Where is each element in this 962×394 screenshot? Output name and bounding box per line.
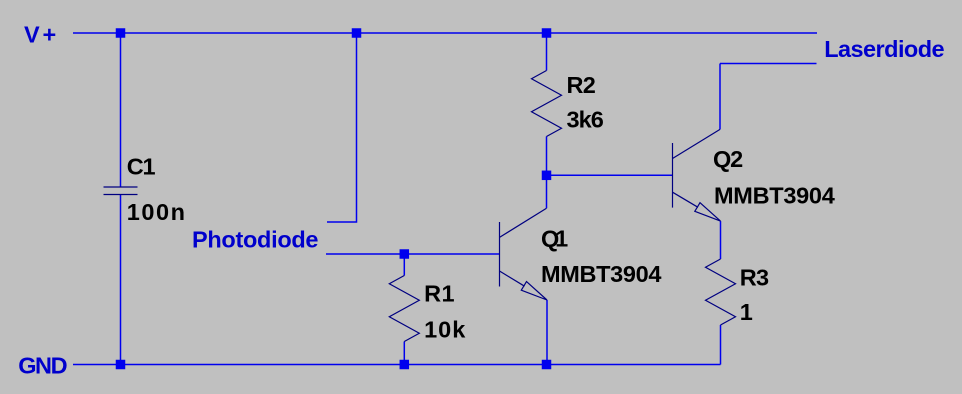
svg-text:GND: GND [18, 353, 67, 379]
wire photodiode anode stub vertical [327, 33, 357, 222]
transistor Q2 [673, 129, 721, 221]
svg-text:1: 1 [740, 299, 753, 325]
wire Q1 collector [546, 175, 548, 208]
junction V+/C1 [116, 28, 126, 38]
wire R3 bottom to GND rail [720, 325, 722, 365]
svg-text:100n: 100n [127, 199, 185, 225]
wire Q1 emitter to GND [546, 300, 548, 365]
svg-text:3k6: 3k6 [567, 107, 604, 133]
junction V+/R2 [542, 28, 552, 38]
wire left vertical V+ to C1 top [120, 33, 122, 187]
svg-text:Laserdiode: Laserdiode [824, 36, 944, 62]
wire Q2 collector up [719, 64, 721, 130]
wire R1 bottom stub [403, 342, 405, 365]
svg-text:R2: R2 [567, 72, 596, 98]
resistor R1 [389, 276, 419, 342]
wire laserdiode cathode stub [720, 63, 817, 65]
wire R1 top stub [403, 254, 405, 276]
wire V+ top rail [73, 32, 817, 34]
svg-text:MMBT3904: MMBT3904 [541, 261, 662, 287]
junction V+/photodiode [352, 28, 362, 38]
svg-text:Q1: Q1 [541, 226, 568, 252]
junction GND/R1 [400, 360, 410, 370]
wire Q2 emitter to R3 [720, 221, 722, 259]
wire photodiode cathode to Q1 base [326, 253, 500, 255]
wire node to Q2 base [547, 174, 673, 176]
wire R2 top stub [546, 33, 548, 71]
svg-text:Q2: Q2 [713, 146, 743, 172]
transistor Q1 [500, 208, 548, 300]
resistor R2 [532, 71, 562, 137]
capacitor C1 [104, 187, 138, 195]
junction photodiode/R1/Q1 base [400, 249, 410, 259]
svg-text:10k: 10k [424, 317, 466, 343]
svg-text:R1: R1 [424, 281, 455, 307]
resistor R3 [706, 259, 736, 325]
junction GND/Q1 emitter [542, 360, 552, 370]
svg-text:MMBT3904: MMBT3904 [714, 182, 835, 208]
junction GND/C1 [116, 360, 126, 370]
svg-text:Photodiode: Photodiode [192, 226, 319, 252]
svg-text:R3: R3 [740, 265, 769, 291]
wire R2 bottom stub to node [546, 137, 548, 176]
junction R2/Q1 collector/Q2 base [542, 171, 552, 181]
wire C1 bottom to GND rail [120, 195, 122, 365]
wire GND bottom rail [73, 364, 721, 366]
svg-text:C1: C1 [127, 154, 156, 180]
